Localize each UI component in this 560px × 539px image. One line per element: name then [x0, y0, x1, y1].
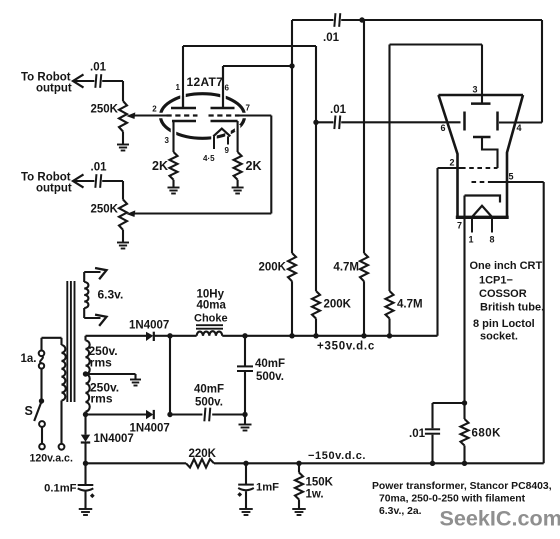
label 500v. (right): [256, 371, 284, 383]
svg-text:output: output: [36, 183, 72, 195]
svg-text:8: 8: [490, 235, 495, 245]
transformer secondary winding: [86, 341, 90, 412]
pin label 2: [152, 105, 157, 114]
label 4.7M (left): [333, 262, 359, 274]
label 1N4007 (D3): [94, 433, 134, 445]
wire primary top lead: [42, 338, 62, 351]
node junction top bus / 4.7M drop: [359, 17, 364, 22]
svg-text:250K: 250K: [91, 104, 119, 116]
label 8 pin Loctol: [473, 318, 535, 330]
label 500v. (left): [195, 397, 223, 409]
node junction pin7 network top: [462, 400, 467, 405]
resistor 4.7M (CRT pin4 bias): [360, 253, 368, 281]
tube V1b grid (dashed): [209, 114, 240, 116]
transformer 6.3v winding: [84, 282, 88, 308]
CRT pin5 dashed lead: [472, 181, 491, 183]
label 1CP1-: [479, 275, 513, 287]
svg-text:200K: 200K: [259, 262, 287, 274]
svg-text:3: 3: [473, 85, 478, 95]
diode 1N4007 D1: [146, 332, 154, 341]
capacitor .01 (CRT cathode): [425, 429, 440, 433]
wire pot2 to ground: [122, 230, 124, 242]
node junction (316,122): [313, 120, 318, 125]
node junction rectifier top: [167, 333, 172, 338]
svg-text:S: S: [25, 404, 33, 418]
svg-text:+350v.d.c: +350v.d.c: [317, 341, 375, 353]
svg-text:70ma, 250-0-250 with filament: 70ma, 250-0-250 with filament: [379, 494, 526, 505]
label 120v.a.c.: [30, 453, 73, 465]
CRT pin1 lead: [471, 218, 473, 233]
pin label 3: [165, 136, 170, 145]
svg-text:rms: rms: [90, 356, 112, 370]
wire 150K bottom: [298, 500, 300, 509]
label +350v.d.c: [317, 341, 375, 353]
svg-text:12AT7: 12AT7: [187, 75, 224, 89]
svg-text:1: 1: [469, 235, 474, 245]
label Choke: [194, 313, 228, 325]
ground (pot 1): [117, 145, 129, 151]
resistor 680K: [461, 403, 469, 463]
tube V1a plate: [171, 96, 196, 108]
label British tube.: [480, 302, 544, 314]
pin label 3 (CRT): [473, 85, 478, 95]
svg-text:1a.: 1a.: [21, 353, 37, 365]
label 12AT7: [187, 75, 224, 89]
node junction -150 left: [83, 461, 88, 466]
potentiometer 250K (lower): [119, 200, 127, 230]
label S: [25, 404, 33, 418]
svg-text:680K: 680K: [472, 428, 502, 440]
fuse 1a: [39, 351, 45, 369]
wire 0.1mF bottom: [84, 492, 86, 509]
label -150v.d.c.: [308, 450, 366, 462]
wire D3 to -150 rail: [84, 443, 86, 464]
label 680K: [472, 428, 502, 440]
label 4.7M (right): [397, 299, 423, 311]
capacitor 40mF 500v (input filter): [204, 408, 210, 422]
svg-text:1: 1: [176, 83, 181, 92]
svg-text:4: 4: [517, 123, 522, 133]
wire rectifier node vertical x=170: [169, 336, 171, 415]
svg-text:socket.: socket.: [480, 331, 518, 343]
svg-text:.01: .01: [91, 162, 108, 174]
label 2K (right): [246, 159, 262, 173]
wire 4.7M#1 to rail: [363, 281, 365, 336]
svg-text:4.7M: 4.7M: [397, 299, 423, 311]
pin label 4 (CRT): [517, 123, 522, 133]
arrow 6.3v top: [95, 265, 109, 280]
pot 2 wiper arrow: [126, 210, 135, 217]
svg-text:8 pin Loctol: 8 pin Loctol: [473, 318, 535, 330]
arrow to robot output (lower): [73, 174, 84, 187]
svg-text:2K: 2K: [152, 159, 168, 173]
wire 2K#2 to ground: [237, 180, 239, 187]
label COSSOR: [479, 288, 527, 300]
svg-text:To Robot: To Robot: [21, 71, 71, 83]
resistor 2K (V1b cathode): [234, 152, 242, 180]
wire 4.7M#2 to rail: [388, 319, 390, 336]
wire primary bottom lead: [60, 401, 62, 444]
label rms (upper): [90, 356, 112, 370]
label 250v. (lower): [90, 380, 119, 394]
label 10Hy: [197, 289, 225, 301]
pot 1 wiper arrow: [126, 112, 135, 119]
wire vertical x=316 to .01 junction and 200K: [315, 46, 317, 291]
wire CRT pin4 plate to right vertical: [499, 121, 542, 123]
svg-text:40ma: 40ma: [197, 300, 227, 312]
wire 200K#2 to rail: [315, 319, 317, 336]
capacitor .01 (top coupling, left triode to CRT pin4 node): [334, 13, 340, 27]
resistor 200K (V1b plate load): [288, 253, 296, 281]
svg-text:40mF: 40mF: [255, 358, 285, 370]
pin label 1: [176, 83, 181, 92]
label 40mF (right): [255, 358, 285, 370]
wire pin5 vertical to -150 rail: [543, 182, 545, 463]
svg-text:1N4007: 1N4007: [129, 320, 169, 332]
tube V1b cathode: [211, 120, 238, 122]
svg-text:.01: .01: [323, 32, 340, 44]
wire secondary top lead: [84, 336, 86, 341]
svg-text:5: 5: [509, 172, 514, 182]
wire .01 branch bottom: [431, 435, 433, 464]
node junction secondary bottom: [83, 412, 88, 417]
label 1w.: [306, 489, 324, 501]
wire fuse to switch: [40, 369, 42, 401]
CRT focus step lead: [482, 137, 498, 168]
tube heater lead pin9: [227, 136, 229, 144]
label socket.: [480, 331, 518, 343]
caption line 2: [379, 494, 526, 505]
label 2K (left): [152, 159, 168, 173]
pin label 5 (CRT): [509, 172, 514, 182]
ground (pot 2): [117, 243, 129, 249]
wire robot output 1: [75, 80, 124, 82]
svg-text:To Robot: To Robot: [21, 171, 71, 183]
label .01 (CRT cathode): [409, 428, 426, 440]
svg-text:2: 2: [450, 158, 455, 168]
svg-text:120v.a.c.: 120v.a.c.: [30, 453, 73, 465]
pin label 7 (CRT): [457, 221, 462, 231]
svg-text:500v.: 500v.: [195, 397, 223, 409]
svg-text:Choke: Choke: [194, 313, 228, 325]
CRT heater triangle: [472, 206, 492, 217]
arrow to robot output (upper): [73, 74, 84, 87]
wire 1mF bottom: [245, 491, 247, 508]
wire CRT pin5 out: [490, 181, 544, 183]
wire cap1 bottom: [244, 371, 246, 415]
tube heater triangle: [213, 129, 230, 137]
tube V1a cathode lead pin3: [172, 121, 174, 152]
svg-text:0.1mF: 0.1mF: [44, 483, 76, 495]
wire 200K#1 to rail: [291, 281, 293, 336]
label output (upper): [36, 83, 72, 95]
wire down to pot 1: [122, 81, 124, 101]
wire switch to line terminal: [41, 427, 43, 444]
wire V1 pin6 plate to x=292: [223, 65, 292, 67]
tube V1b plate: [211, 66, 235, 108]
capacitor .01 (lower output coupling): [95, 174, 101, 188]
capacitor 1mF electrolytic: [237, 485, 254, 497]
wire right vertical to CRT pin 4: [541, 20, 543, 123]
svg-text:4·5: 4·5: [203, 154, 215, 163]
node junction plate V1b (292,66): [289, 63, 294, 68]
wire 1mF top: [245, 463, 247, 484]
wire 6.3v bottom lead: [84, 308, 100, 318]
svg-text:2: 2: [152, 105, 157, 114]
svg-text:6.3v., 2a.: 6.3v., 2a.: [379, 506, 422, 517]
wire vertical x=389.5 (4.7M#2): [388, 45, 390, 292]
pin label 6 (CRT): [441, 123, 446, 133]
label 200K (left): [259, 262, 287, 274]
tube envelope 12AT7 U1: [161, 94, 245, 139]
wire -150 rail right: [214, 462, 544, 464]
wire down to pot 2: [122, 181, 124, 200]
transformer primary winding: [62, 345, 66, 401]
wire pin7 network top: [433, 402, 465, 404]
svg-text:200K: 200K: [324, 299, 352, 311]
pin label 4-5: [203, 154, 215, 163]
switch S blade: [34, 402, 41, 422]
wire caps to ground: [244, 415, 246, 425]
wire pot2 wiper to V1 grid pin7: [134, 212, 271, 214]
ground (center tap): [130, 380, 141, 386]
node secondary center tap: [83, 371, 88, 376]
wire CRT pin3 vertical lead: [481, 45, 483, 104]
wire secondary bottom down to D3: [84, 415, 86, 435]
svg-text:2K: 2K: [246, 159, 262, 173]
tube heater lead pin4-5: [213, 136, 215, 149]
wire secondary top to D1: [86, 335, 147, 337]
wire y=122 .01 cap to CRT pin6: [316, 121, 461, 123]
tube envelope gaps: [158, 93, 248, 141]
svg-text:7: 7: [457, 221, 462, 231]
arrow 6.3v bottom: [95, 311, 109, 326]
wire .01 branch top: [431, 403, 433, 428]
capacitor 0.1mF electrolytic: [78, 485, 95, 498]
CRT pin7 lead (gun box left side down): [463, 196, 465, 404]
transformer core: [67, 281, 74, 402]
pin label 2 (CRT): [450, 158, 455, 168]
label .01 (lower coupling cap): [330, 104, 347, 116]
wire vertical 200K plate-load drop (x=292): [291, 20, 293, 253]
diode 1N4007 D2: [146, 410, 154, 419]
svg-text:.01: .01: [330, 104, 347, 116]
svg-text:Power transformer, Stancor PC8: Power transformer, Stancor PC8403,: [372, 481, 552, 492]
wire secondary bottom to D2: [86, 413, 147, 415]
caption line 1: [372, 481, 552, 492]
label .01 (top cap): [323, 32, 340, 44]
label 200K (right): [324, 299, 352, 311]
CRT pin6 deflection plate: [463, 112, 466, 131]
resistor 220K (series): [186, 459, 214, 467]
svg-text:6.3v.: 6.3v.: [98, 288, 124, 302]
CRT pin3 electrode: [471, 102, 491, 105]
resistor 150K 1w: [295, 473, 303, 500]
label 1a.: [21, 353, 37, 365]
svg-text:1N4007: 1N4007: [130, 423, 170, 435]
capacitor .01 (lower coupling to CRT pin6): [334, 116, 340, 130]
wire D1 to node: [154, 335, 170, 337]
svg-text:220K: 220K: [189, 448, 217, 460]
svg-text:rms: rms: [91, 391, 113, 405]
svg-text:3: 3: [165, 136, 170, 145]
resistor 200K (V1a plate load): [312, 291, 320, 319]
label rms (lower): [91, 391, 113, 405]
ground (V1b cathode): [232, 188, 244, 194]
svg-text:9: 9: [225, 146, 230, 155]
label 250K (upper): [91, 104, 119, 116]
inductor choke 10Hy: [197, 331, 223, 336]
svg-text:1N4007: 1N4007: [94, 433, 134, 445]
label To Robot (upper): [21, 71, 71, 83]
wire 6.3v top lead: [84, 272, 100, 282]
label 250K (lower): [91, 204, 119, 216]
svg-text:40mF: 40mF: [194, 384, 224, 396]
wire pot1 wiper to V1 grid pin2: [134, 114, 168, 116]
label 1N4007 (D1): [129, 320, 169, 332]
wire secondary bottom lead: [84, 412, 86, 415]
CRT pin8 lead: [491, 218, 493, 233]
wire CRT pin2 out: [438, 167, 462, 169]
ground (filter caps): [239, 425, 252, 431]
CRT pin4 deflection plate: [496, 112, 499, 131]
switch terminal: [39, 421, 45, 427]
node junction rectifier bottom: [167, 412, 172, 417]
label 220K: [189, 448, 217, 460]
svg-text:−150v.d.c.: −150v.d.c.: [308, 450, 366, 462]
wire cap1 top: [244, 336, 246, 367]
svg-text:250K: 250K: [91, 204, 119, 216]
wire 2K#1 to ground: [172, 180, 174, 187]
svg-text:7: 7: [246, 104, 251, 113]
svg-text:6: 6: [225, 84, 230, 93]
wire pot1 to ground: [122, 132, 124, 145]
svg-text:1CP1−: 1CP1−: [479, 275, 513, 287]
pin label 8 (CRT): [490, 235, 495, 245]
diode 1N4007 D3 (negative rail): [81, 435, 90, 443]
label 6.3v.: [98, 288, 124, 302]
label 40mF (left): [194, 384, 224, 396]
tube V1b cathode lead: [237, 121, 239, 152]
watermark SeekIC.com: [440, 506, 560, 531]
choke core lines: [196, 325, 223, 329]
CRT envelope 1CP1: [439, 95, 524, 218]
ground (V1a cathode): [168, 188, 180, 194]
label 1N4007 (D2): [130, 423, 170, 435]
resistor 4.7M (CRT pin3 bias): [386, 291, 394, 319]
tube V1a grid (dashed): [167, 114, 198, 116]
wire +350 rail: [170, 335, 438, 337]
CRT focus electrode: [473, 136, 491, 139]
wire top bus from 200K node to CRT pin 4 (y=20): [292, 19, 542, 21]
svg-text:.01: .01: [90, 62, 107, 74]
label 1mF: [256, 482, 279, 494]
ground (1mF): [239, 509, 253, 515]
caption line 3: [379, 506, 422, 517]
wire -150 rail left: [86, 462, 187, 464]
label To Robot (lower): [21, 171, 71, 183]
svg-text:6: 6: [441, 123, 446, 133]
terminal 120vac left: [39, 444, 45, 450]
svg-text:4.7M: 4.7M: [333, 262, 359, 274]
ground (150K): [292, 509, 306, 515]
svg-text:One inch CRT: One inch CRT: [470, 260, 543, 272]
svg-text:500v.: 500v.: [256, 371, 284, 383]
pin label 7: [246, 104, 251, 113]
svg-text:1mF: 1mF: [256, 482, 279, 494]
wire V1 pin7 right: [239, 114, 272, 116]
label 250v. (upper): [89, 344, 118, 358]
svg-text:1w.: 1w.: [306, 489, 324, 501]
svg-text:.01: .01: [409, 428, 426, 440]
potentiometer 250K (upper): [119, 101, 127, 132]
svg-text:SeekIC.com: SeekIC.com: [440, 506, 560, 531]
tube V1a cathode: [172, 120, 196, 122]
wire robot output 2: [75, 180, 124, 182]
wire y=44.5 from 4.7M#2 to CRT pin3 drop: [390, 43, 483, 45]
pin label 1 (CRT): [469, 235, 474, 245]
terminal 120vac right: [59, 444, 65, 450]
wire vertical x=364 (4.7M#1 to top bus): [363, 20, 365, 253]
capacitor .01 (upper output coupling): [95, 74, 101, 88]
wire center tap: [86, 374, 136, 379]
svg-text:British tube.: British tube.: [480, 302, 544, 314]
pin label 9: [225, 146, 230, 155]
label .01 (lower output): [91, 162, 108, 174]
CRT gun box: [465, 196, 501, 203]
label 40ma: [197, 300, 227, 312]
pin label 6: [225, 84, 230, 93]
wire 150K top: [298, 463, 300, 472]
wire pin2 vertical to +350 rail: [436, 168, 438, 336]
label 150K: [306, 477, 334, 489]
node junctions -150 rail: [243, 461, 467, 466]
capacitor 40mF 500v (after choke): [237, 366, 253, 371]
wire vertical x=271 pin7 drop: [270, 116, 272, 214]
resistor 2K (V1a cathode): [170, 152, 178, 180]
node switch contact: [39, 398, 44, 403]
label 0.1mF: [44, 483, 76, 495]
svg-text:COSSOR: COSSOR: [479, 288, 527, 300]
CRT pin2 dashed lead: [461, 167, 498, 169]
label output (lower): [36, 183, 72, 195]
label One inch CRT: [470, 260, 543, 272]
wire 40mF#2 row: [170, 413, 245, 415]
node junction caps ground: [242, 412, 247, 417]
wire y=46 from pin1 to x=316: [183, 45, 316, 47]
wire 0.1mF top: [84, 463, 86, 484]
node rail junctions: [242, 333, 392, 338]
wire V1 pin1 plate top lead: [182, 46, 184, 108]
ground (0.1mF): [79, 509, 93, 515]
svg-text:output: output: [36, 83, 72, 95]
svg-text:150K: 150K: [306, 477, 334, 489]
label .01 (upper output): [90, 62, 107, 74]
